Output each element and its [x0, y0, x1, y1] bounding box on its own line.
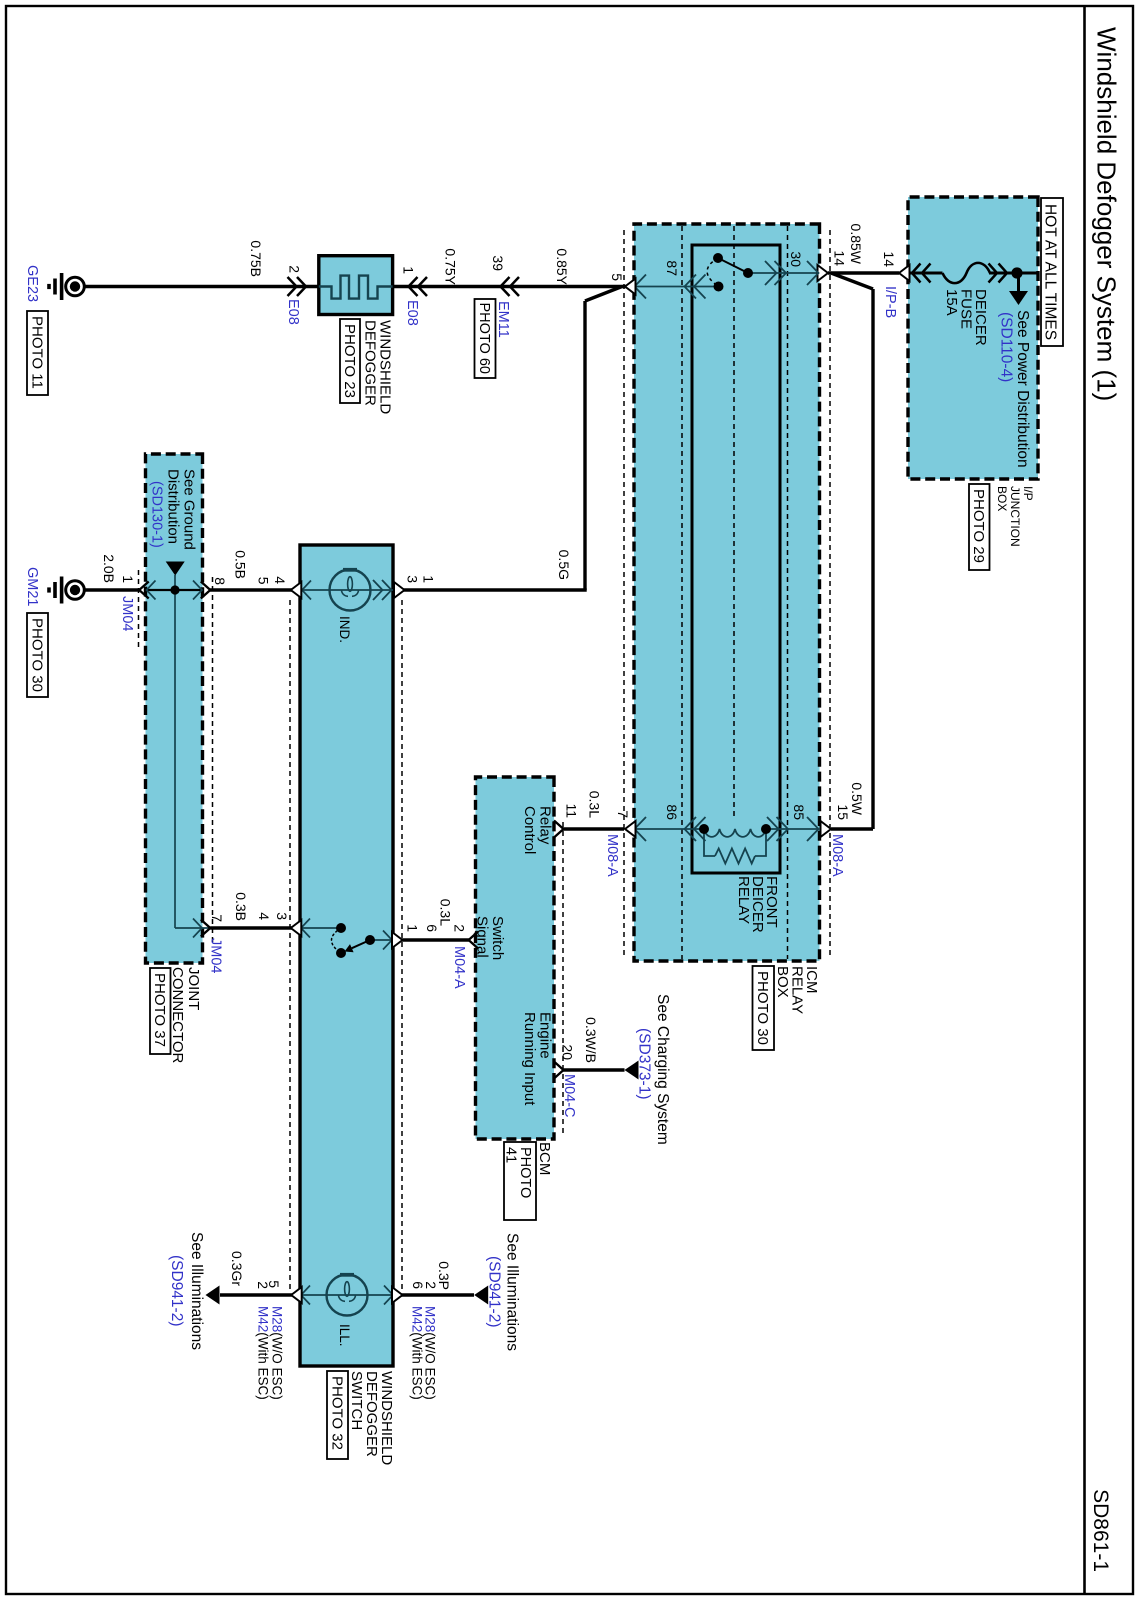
- svg-text:See Illuminations: See Illuminations: [188, 1232, 205, 1350]
- svg-text:6: 6: [424, 924, 440, 932]
- svg-text:WINDSHIELD: WINDSHIELD: [378, 1371, 395, 1465]
- svg-text:2: 2: [287, 265, 303, 273]
- svg-text:0.5W: 0.5W: [849, 782, 865, 815]
- svg-text:SWITCH: SWITCH: [348, 1371, 365, 1430]
- svg-text:0.5G: 0.5G: [556, 550, 572, 580]
- svg-text:ILL.: ILL.: [337, 1324, 352, 1347]
- svg-text:0.75B: 0.75B: [248, 240, 264, 277]
- svg-text:JUNCTION: JUNCTION: [1008, 486, 1022, 547]
- svg-text:Engine: Engine: [537, 1012, 554, 1059]
- svg-text:RELAY: RELAY: [735, 876, 752, 924]
- svg-text:PHOTO: PHOTO: [517, 1147, 533, 1198]
- svg-text:4: 4: [256, 912, 272, 920]
- svg-text:BOX: BOX: [995, 486, 1009, 511]
- svg-text:14: 14: [832, 250, 848, 266]
- svg-text:PHOTO 32: PHOTO 32: [329, 1376, 346, 1450]
- svg-text:BOX: BOX: [774, 966, 791, 998]
- svg-text:(SD941-2): (SD941-2): [486, 1256, 503, 1328]
- svg-text:See Charging System: See Charging System: [654, 994, 671, 1145]
- svg-text:(SD130-1): (SD130-1): [149, 481, 165, 548]
- svg-text:86: 86: [664, 804, 680, 820]
- svg-text:I/P-B: I/P-B: [882, 286, 898, 318]
- svg-text:15: 15: [835, 804, 851, 820]
- svg-text:1: 1: [405, 924, 421, 932]
- svg-text:8: 8: [212, 577, 228, 585]
- svg-text:0.3Gr: 0.3Gr: [229, 1251, 245, 1286]
- svg-text:85: 85: [791, 804, 807, 820]
- svg-text:Switch: Switch: [489, 916, 506, 960]
- svg-text:(SD941-2): (SD941-2): [168, 1255, 185, 1327]
- svg-text:87: 87: [664, 260, 680, 276]
- svg-text:M28(W/O ESC): M28(W/O ESC): [270, 1306, 285, 1400]
- svg-text:11: 11: [564, 803, 580, 818]
- svg-text:M04-A: M04-A: [451, 946, 467, 989]
- svg-text:14: 14: [881, 251, 897, 267]
- svg-text:DEFOGGER: DEFOGGER: [363, 1371, 380, 1457]
- svg-text:PHOTO 23: PHOTO 23: [341, 324, 358, 398]
- svg-text:2: 2: [452, 924, 468, 932]
- svg-text:0.75Y: 0.75Y: [443, 248, 459, 285]
- svg-text:Control: Control: [521, 806, 538, 854]
- svg-text:PHOTO 30: PHOTO 30: [754, 971, 771, 1045]
- svg-text:M08-A: M08-A: [829, 834, 845, 877]
- svg-text:3: 3: [274, 912, 290, 920]
- svg-text:ICM: ICM: [803, 966, 820, 994]
- svg-text:PHOTO 11: PHOTO 11: [29, 316, 46, 389]
- svg-text:GE23: GE23: [24, 265, 40, 302]
- svg-text:1: 1: [401, 266, 417, 274]
- svg-text:PHOTO 29: PHOTO 29: [970, 489, 987, 563]
- svg-text:M04-C: M04-C: [561, 1074, 577, 1118]
- svg-text:(SD373-1): (SD373-1): [636, 1028, 653, 1100]
- svg-text:30: 30: [788, 251, 804, 267]
- svg-text:Relay: Relay: [537, 806, 554, 845]
- svg-text:6: 6: [410, 1281, 426, 1289]
- svg-text:41: 41: [503, 1147, 519, 1163]
- svg-text:0.3L: 0.3L: [587, 791, 603, 818]
- svg-text:See Illuminations: See Illuminations: [504, 1233, 521, 1351]
- svg-text:Distribution: Distribution: [165, 469, 182, 544]
- svg-text:JM04: JM04: [208, 938, 224, 973]
- svg-text:39: 39: [490, 255, 506, 271]
- svg-text:M42(With ESC): M42(With ESC): [256, 1306, 271, 1400]
- svg-text:E08: E08: [285, 299, 301, 325]
- svg-text:1: 1: [421, 575, 437, 583]
- svg-text:20: 20: [560, 1044, 576, 1060]
- svg-text:CONNECTOR: CONNECTOR: [169, 967, 186, 1064]
- svg-text:2.0B: 2.0B: [101, 554, 117, 583]
- svg-text:3: 3: [405, 575, 421, 583]
- svg-text:DEICER: DEICER: [972, 289, 989, 346]
- svg-text:HOT AT ALL TIMES: HOT AT ALL TIMES: [1042, 204, 1059, 340]
- svg-text:M08-A: M08-A: [604, 834, 620, 877]
- svg-text:E08: E08: [404, 300, 420, 326]
- svg-text:5: 5: [609, 273, 625, 281]
- svg-text:PHOTO 30: PHOTO 30: [29, 618, 46, 692]
- svg-text:0.3P: 0.3P: [436, 1261, 452, 1290]
- svg-text:0.5B: 0.5B: [233, 550, 249, 579]
- svg-text:M28(W/O ESC): M28(W/O ESC): [423, 1306, 438, 1400]
- svg-text:I/P: I/P: [1021, 486, 1035, 501]
- svg-text:EM11: EM11: [495, 301, 511, 338]
- svg-text:BCM: BCM: [536, 1142, 553, 1175]
- svg-text:FUSE: FUSE: [958, 289, 975, 329]
- svg-text:JOINT: JOINT: [185, 967, 202, 1010]
- svg-text:Running Input: Running Input: [521, 1012, 538, 1106]
- svg-text:1: 1: [120, 575, 136, 583]
- svg-text:See Power Distribution: See Power Distribution: [1014, 310, 1031, 468]
- svg-text:SD861-1: SD861-1: [1089, 1489, 1112, 1572]
- svg-text:2: 2: [255, 1281, 271, 1289]
- svg-text:WINDSHIELD: WINDSHIELD: [377, 320, 394, 414]
- svg-text:(SD110-4): (SD110-4): [998, 312, 1015, 382]
- svg-text:0.85W: 0.85W: [848, 224, 864, 265]
- svg-text:See Ground: See Ground: [181, 469, 198, 550]
- svg-text:0.3B: 0.3B: [233, 892, 249, 921]
- svg-text:Windshield Defogger System (1): Windshield Defogger System (1): [1092, 27, 1122, 401]
- svg-text:PHOTO 37: PHOTO 37: [151, 973, 168, 1047]
- svg-text:Signal: Signal: [474, 916, 491, 958]
- svg-text:7: 7: [615, 810, 631, 818]
- svg-text:JM04: JM04: [119, 596, 135, 631]
- svg-text:7: 7: [209, 914, 225, 922]
- svg-text:GM21: GM21: [24, 567, 40, 607]
- svg-text:0.85Y: 0.85Y: [554, 248, 570, 285]
- svg-text:5: 5: [256, 577, 272, 585]
- svg-text:RELAY: RELAY: [789, 966, 806, 1014]
- svg-text:M42(With ESC): M42(With ESC): [410, 1306, 425, 1400]
- svg-text:DEFOGGER: DEFOGGER: [362, 320, 379, 406]
- svg-text:0.3L: 0.3L: [438, 899, 454, 926]
- svg-text:0.3W/B: 0.3W/B: [583, 1017, 599, 1063]
- svg-text:4: 4: [272, 576, 288, 584]
- svg-text:PHOTO 60: PHOTO 60: [476, 303, 492, 374]
- svg-text:15A: 15A: [943, 289, 960, 316]
- svg-text:IND.: IND.: [337, 616, 352, 643]
